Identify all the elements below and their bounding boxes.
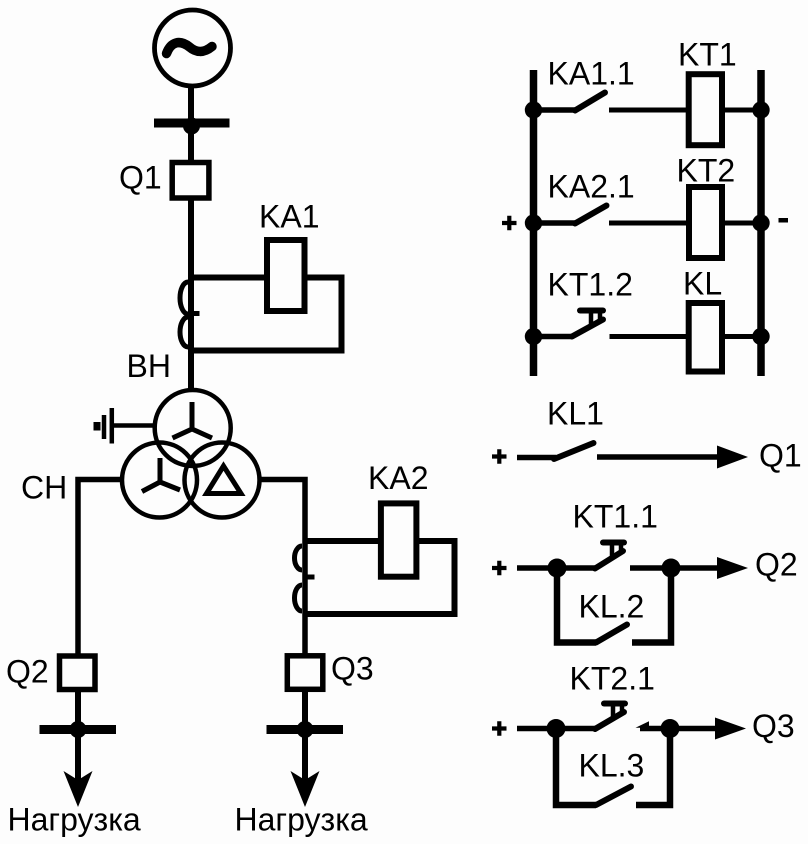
svg-text:KT1.1: KT1.1: [573, 499, 658, 535]
CT secondary tick (KA2): [304, 575, 315, 580]
junction dot Q3 row left: [547, 719, 566, 738]
wire loop to relay KA2: [305, 541, 455, 614]
svg-text:Q3: Q3: [331, 651, 374, 687]
wire to arrow Q3: [669, 726, 718, 732]
load busbar (left): [40, 725, 117, 734]
arrow to Q1: [717, 446, 748, 469]
contact KA1.1: [534, 93, 606, 111]
transformer T1 LV winding (delta): [185, 443, 260, 518]
svg-text:ВН: ВН: [127, 348, 171, 384]
transformer T1 MV winding (star): [122, 443, 197, 518]
contact KA2.1: [534, 206, 607, 224]
wire busbar to Q1: [188, 127, 194, 162]
label + (rail): [502, 216, 517, 231]
svg-text:Q1: Q1: [759, 438, 802, 474]
bypass branch wire right (Q2 row): [632, 568, 671, 643]
wire generator to busbar: [188, 84, 194, 122]
wire contact to KT1: [609, 108, 688, 113]
junction dot row1 left: [525, 101, 542, 118]
time-delay contact KT1.2: [534, 311, 604, 337]
contact KL.2: [596, 625, 627, 643]
junction dot (left load): [70, 721, 87, 738]
wire Q2 to load busbar: [75, 689, 81, 727]
breaker Q2: [60, 656, 96, 690]
svg-text:KA2: KA2: [368, 460, 428, 496]
label - (rail): [779, 218, 789, 223]
wire KL to right rail: [725, 334, 761, 339]
wire + to dot (Q3 row): [517, 726, 556, 732]
wire KL1 to arrow Q1: [597, 454, 720, 460]
junction dot Q3 row right: [661, 719, 680, 738]
svg-text:Q3: Q3: [752, 708, 795, 744]
ground: [94, 408, 156, 444]
arrow to Q3: [715, 718, 746, 740]
junction dot row2 right: [752, 214, 769, 231]
wire KT1 to right rail: [725, 108, 761, 113]
transformer T1 HV winding (star): [155, 390, 231, 466]
load arrow (left): [64, 730, 93, 807]
bypass branch wire (Q2 row): [557, 568, 596, 643]
junction dot row3 right: [752, 328, 769, 345]
contact KL.3: [596, 787, 631, 806]
relay KA2: [381, 503, 417, 576]
bypass branch wire (Q3 row): [556, 729, 596, 806]
breaker Q3: [287, 656, 323, 690]
junction dot Q2 row left: [548, 559, 567, 578]
busbar: [154, 119, 230, 128]
junction dot (right load): [297, 721, 314, 738]
junction dot row2 left: [525, 214, 542, 231]
relay coil KL: [689, 303, 722, 372]
svg-text:СН: СН: [21, 470, 67, 506]
label + (Q2 row): [492, 561, 507, 576]
svg-text:KA1.1: KA1.1: [548, 56, 635, 92]
svg-text:KA2.1: KA2.1: [548, 169, 635, 205]
generator G: [155, 10, 231, 86]
wire contact to KT2: [609, 221, 689, 226]
time-delay contact KT1.1: [557, 543, 624, 569]
svg-text:Нагрузка: Нагрузка: [8, 802, 141, 838]
wire contact to dot (Q2 row): [630, 565, 671, 571]
wire Q3 to load busbar: [302, 689, 308, 727]
wire contact to KL: [610, 334, 690, 339]
svg-text:Нагрузка: Нагрузка: [235, 802, 368, 838]
wire KT2 to right rail: [725, 221, 761, 226]
label + (KL1 row): [492, 449, 507, 464]
junction dot Q2 row right: [662, 559, 681, 578]
arrow to Q2: [717, 557, 748, 579]
CT secondary tick: [189, 311, 200, 316]
junction dot row3 left: [525, 328, 542, 345]
svg-text:KT1.2: KT1.2: [548, 267, 633, 303]
contact KL1: [517, 443, 594, 459]
wire contact to dot (Q3 row): [640, 726, 670, 732]
svg-text:Q2: Q2: [755, 547, 798, 583]
breaker Q1: [172, 163, 209, 199]
relay coil KT2: [689, 187, 722, 258]
right (-) rail: [757, 70, 765, 376]
svg-text:KT2: KT2: [677, 153, 736, 189]
CT arcs for KA2: [295, 546, 302, 611]
left (+) rail: [530, 70, 538, 376]
wire Q1 to transformer: [188, 198, 194, 392]
small left arrowhead (Q3 row): [636, 721, 650, 728]
svg-text:Q1: Q1: [119, 160, 162, 196]
svg-text:KL: KL: [683, 266, 722, 302]
svg-text:KL.2: KL.2: [579, 589, 645, 625]
junction dot row1 right: [752, 101, 769, 118]
relay coil KT1: [689, 74, 722, 145]
junction dot on busbar: [183, 118, 200, 135]
time-delay contact KT2.1: [556, 704, 625, 730]
svg-text:KL.3: KL.3: [579, 748, 645, 784]
svg-text:KT2.1: KT2.1: [570, 661, 655, 697]
load busbar (right): [267, 725, 344, 734]
wire to arrow Q2: [671, 565, 720, 571]
CT (current transformer) arcs for KA1: [180, 282, 188, 347]
label + (Q3 row): [492, 721, 507, 736]
load arrow (right): [291, 730, 320, 807]
wire + to dot (Q2 row): [517, 565, 557, 571]
wire loop to relay KA1: [191, 278, 342, 351]
bypass branch wire right (Q3 row): [636, 729, 670, 806]
svg-text:Q2: Q2: [6, 654, 49, 690]
relay KA1: [267, 240, 305, 311]
svg-text:KA1: KA1: [259, 199, 319, 235]
svg-text:KL1: KL1: [547, 396, 604, 432]
wire LV winding to Q3: [259, 480, 305, 655]
svg-text:KT1: KT1: [678, 37, 737, 73]
wire MV winding to Q2: [78, 480, 122, 655]
